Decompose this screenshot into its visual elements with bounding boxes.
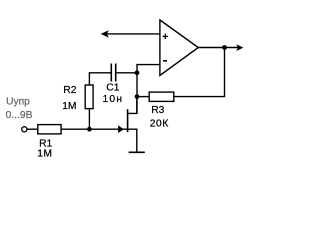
op-amp plus marking: [163, 34, 168, 39]
transistor Q1 channel: [127, 109, 129, 132]
wire: C1 right plate to junction: [116, 72, 137, 74]
ground: source ground bar: [129, 151, 145, 153]
wire: junction to JFET gate: [89, 128, 127, 130]
svg-text:R2: R2: [63, 85, 76, 96]
wire: R2 bottom to gate net junction: [88, 109, 90, 130]
svg-text:C1: C1: [106, 83, 119, 94]
node: C1 right junction dot: [135, 70, 140, 75]
transistor Q1 source lead: [128, 129, 137, 152]
node: summing node dot (R3 / drain / C1 branch): [135, 94, 140, 99]
arrow: input signal pointing left: [101, 30, 109, 37]
svg-text:Uупр: Uупр: [6, 96, 30, 107]
svg-text:20К: 20К: [150, 119, 169, 130]
wire: feedback from output down to R3 right: [174, 48, 225, 97]
wire: non-inverting input net (to external, y=33.9): [103, 33, 161, 35]
wire: vertical net x=137 between C1 node and drain corner: [136, 73, 138, 114]
transistor Q1 drain lead: [128, 97, 137, 114]
node: gate net junction dot: [87, 127, 92, 132]
resistor R1 body: [38, 125, 61, 134]
svg-text:10н: 10н: [103, 94, 124, 105]
wire: R1 right to junction: [61, 128, 89, 130]
arrow: output signal pointing right: [236, 44, 243, 51]
node: output junction dot: [222, 45, 227, 50]
op-amp minus marking: [163, 60, 167, 62]
wire: terminal to R1: [27, 128, 38, 130]
svg-text:R3: R3: [151, 105, 164, 116]
svg-text:1М: 1М: [37, 148, 52, 159]
wire: output of op-amp to the right: [198, 47, 240, 49]
resistor R2 body: [85, 85, 93, 109]
transistor Q1 gate arrow: [118, 125, 124, 133]
svg-text:1М: 1М: [62, 101, 76, 112]
op-amp U1 triangle: [160, 20, 198, 76]
resistor R3 body: [149, 92, 174, 101]
wire: R3 left to summing node: [137, 96, 149, 98]
wire: C1 left plate to corner above R2: [89, 73, 110, 85]
terminal: input circle: [22, 127, 27, 132]
capacitor C1 plates: [111, 64, 115, 82]
svg-text:0...9В: 0...9В: [6, 110, 33, 121]
wire: inverting input segment (y=64.6): [137, 65, 160, 73]
